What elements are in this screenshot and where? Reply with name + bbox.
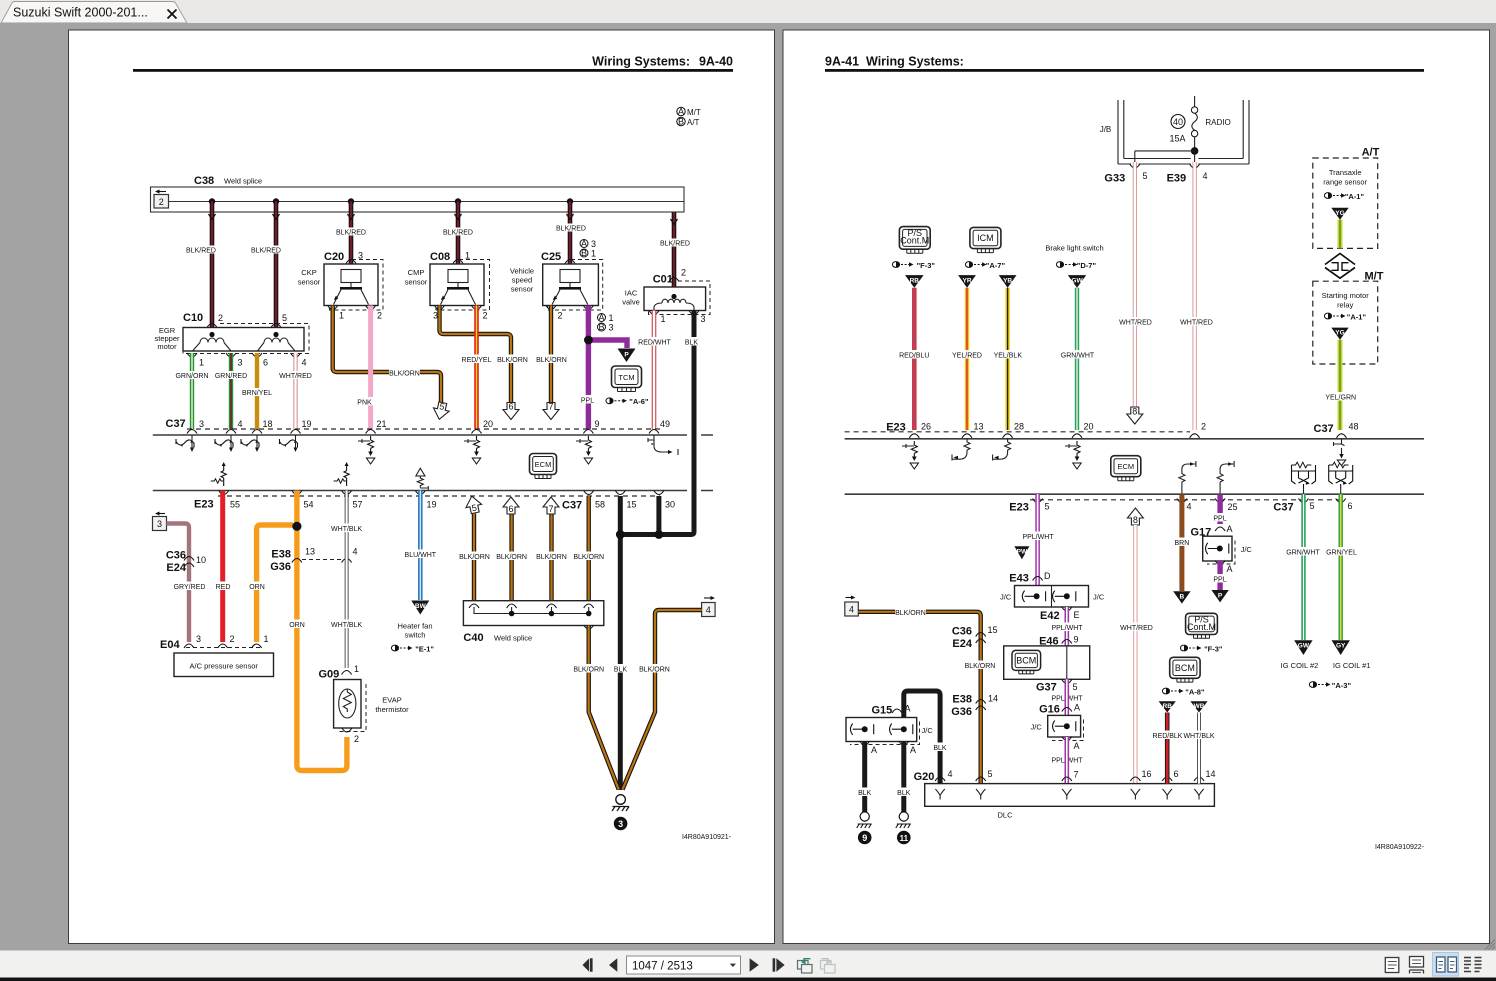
svg-text:BLK: BLK [858, 790, 872, 797]
svg-text:BLK/ORN: BLK/ORN [965, 663, 996, 670]
connector C37 label on lower bus [562, 491, 675, 512]
svg-text:RADIO: RADIO [1205, 118, 1230, 127]
svg-text:RED/BLK: RED/BLK [1153, 733, 1183, 740]
continuation triangle RB from P/S [905, 275, 924, 288]
svg-text:A: A [1227, 564, 1233, 574]
wire WHT/RED G33 to arrow 8 [1119, 162, 1152, 407]
svg-text:A: A [1074, 741, 1080, 751]
wire BLU/WHT E23 pin19 to heater fan switch [403, 491, 437, 601]
see reference F-3 (upper) [892, 261, 935, 270]
svg-text:1: 1 [661, 314, 666, 324]
svg-text:BLK/RED: BLK/RED [251, 248, 281, 255]
right page header title [825, 55, 964, 69]
svg-text:20: 20 [483, 419, 493, 429]
svg-text:A: A [598, 312, 604, 322]
connector C37 bus (upper) [153, 418, 713, 435]
thermistor G09 EVAP [319, 664, 410, 744]
svg-text:YG: YG [1335, 210, 1344, 217]
ECM internal resistor above C37 pin48 [1334, 439, 1346, 466]
svg-text:13: 13 [974, 422, 984, 432]
svg-text:4: 4 [706, 605, 711, 615]
weld splice C40 [463, 601, 603, 644]
svg-text:15A: 15A [1169, 134, 1185, 144]
ECM internal circuits above E23 [211, 462, 227, 486]
hollow arrow 8 down [1127, 407, 1143, 425]
svg-text:2: 2 [1201, 422, 1206, 432]
svg-text:sensor: sensor [511, 285, 534, 294]
wire BLK/ORN box4 to ground junction [623, 610, 702, 790]
wire YEL/GRN transaxle sensor [1338, 220, 1343, 249]
svg-text:RED: RED [216, 584, 231, 591]
svg-text:B: B [1180, 594, 1185, 601]
svg-text:GRN/RED: GRN/RED [215, 373, 247, 380]
wire ORN E23 pin54 to G09 pin2 [287, 491, 347, 771]
inline connector E38/G36 pin13 to pin4 link [270, 547, 357, 574]
wire BLK/ORN arrow5 to C40 [459, 514, 490, 602]
svg-text:BCM: BCM [1175, 663, 1195, 673]
wire BRN lower bus to triangle B [1171, 494, 1192, 591]
svg-text:BLK/ORN: BLK/ORN [497, 357, 528, 364]
wire GRN/RED C10 pin3 to C37 pin4 [215, 353, 248, 429]
svg-text:Transaxle: Transaxle [1329, 168, 1362, 177]
svg-text:A/C pressure sensor: A/C pressure sensor [190, 662, 259, 671]
svg-text:BLK: BLK [614, 667, 628, 674]
wire BLK/ORN C08 pin3 to arrow 6 [440, 306, 529, 404]
E23 right pins [909, 422, 1206, 438]
svg-text:BW: BW [415, 603, 427, 610]
svg-text:ORN: ORN [249, 584, 265, 591]
wire RED E23 pin55 to E04 pin2 [213, 491, 233, 643]
svg-text:switch: switch [405, 631, 426, 640]
svg-text:2: 2 [483, 311, 488, 321]
svg-text:PNK: PNK [357, 400, 372, 407]
svg-text:E: E [1074, 610, 1080, 620]
svg-text:GRY/RED: GRY/RED [174, 584, 206, 591]
wire PPL lower bus to G17 [1210, 494, 1230, 524]
wire RED/BLK to G20 pin6 [1152, 713, 1183, 784]
svg-text:J/C: J/C [922, 726, 934, 735]
toolbar: continuous view icon [1410, 957, 1424, 974]
C25 variant pins legend A3 B1 [580, 238, 596, 258]
ground symbol 11 [896, 812, 911, 844]
svg-text:RED/YEL: RED/YEL [462, 357, 492, 364]
svg-text:BLK/ORN: BLK/ORN [573, 667, 604, 674]
connector E04 A/C pressure sensor [160, 634, 274, 677]
browser tab bar background [0, 0, 1496, 23]
svg-text:10: 10 [196, 555, 206, 565]
svg-text:GW: GW [1298, 643, 1310, 650]
svg-text:13: 13 [305, 547, 315, 557]
BCM box with module icon [1004, 646, 1090, 679]
svg-text:2: 2 [159, 197, 164, 207]
svg-text:E39: E39 [1167, 173, 1187, 185]
svg-text:C20: C20 [324, 251, 344, 263]
connector C10 EGR stepper motor [154, 312, 309, 354]
svg-text:BLK/ORN: BLK/ORN [536, 554, 567, 561]
svg-text:sensor: sensor [298, 278, 321, 287]
junction block J/B walls [1100, 100, 1249, 164]
ECM internal circuit above lower bus at BRN [1179, 461, 1196, 494]
svg-text:D: D [1044, 571, 1051, 581]
svg-text:48: 48 [1349, 422, 1359, 432]
module TCM [612, 366, 642, 392]
svg-text:"A-7": "A-7" [986, 261, 1006, 270]
toolbar: first page button [583, 958, 593, 971]
svg-text:49: 49 [660, 419, 670, 429]
svg-text:Weld splice: Weld splice [224, 177, 262, 186]
svg-text:3: 3 [618, 819, 623, 829]
svg-text:15: 15 [988, 625, 998, 635]
junction connector G16 pinA J/C [1031, 703, 1084, 765]
svg-text:18: 18 [263, 419, 273, 429]
svg-text:speed: speed [512, 276, 532, 285]
svg-text:BLK: BLK [685, 340, 699, 347]
svg-text:motor: motor [157, 342, 177, 351]
see reference D-7 [1056, 261, 1096, 270]
wire WHT/RED arrow8 to G20 pin16 [1120, 525, 1153, 784]
svg-text:IAC: IAC [625, 289, 638, 298]
svg-text:"A-1": "A-1" [1345, 192, 1365, 201]
svg-text:9: 9 [595, 419, 600, 429]
wire BRN/YEL C10 pin6 to C37 pin18 [241, 353, 273, 429]
ground symbol 9 [857, 812, 872, 844]
svg-text:CMP: CMP [408, 268, 425, 277]
svg-text:19: 19 [302, 419, 312, 429]
svg-text:54: 54 [304, 500, 314, 510]
svg-text:Cont.M: Cont.M [1187, 622, 1216, 632]
inline connector E38/G36 pin14 (right page) [951, 694, 998, 719]
svg-text:14: 14 [1206, 769, 1216, 779]
svg-text:WHT/RED: WHT/RED [1119, 320, 1152, 327]
svg-text:CKP: CKP [301, 268, 316, 277]
svg-text:RED/WHT: RED/WHT [638, 340, 671, 347]
junction connector G15 pinA J/C [846, 704, 933, 756]
svg-text:5: 5 [1310, 501, 1315, 511]
svg-text:P: P [1218, 592, 1223, 599]
svg-text:8: 8 [1132, 407, 1137, 417]
svg-text:BLK/ORN: BLK/ORN [389, 371, 420, 378]
svg-text:3: 3 [196, 634, 201, 644]
module P/S Cont.M (upper) [899, 227, 930, 254]
wire PPL/WHT E42 to E46 [1051, 607, 1083, 646]
svg-text:19: 19 [427, 500, 437, 510]
svg-text:1047 / 2513: 1047 / 2513 [632, 961, 693, 973]
svg-text:2: 2 [230, 634, 235, 644]
lower bus E23/C37 (right page) [845, 494, 1424, 500]
wire BLK/ORN E23 pin58 to C40 [573, 496, 604, 601]
svg-text:58: 58 [595, 500, 605, 510]
circuit number box 3 with arrow [153, 512, 167, 531]
right page sheet [783, 30, 1490, 944]
wire BLK/ORN C25 pin2 to arrow 7 [536, 306, 567, 404]
C38 weld splice bus [151, 187, 685, 212]
svg-text:B: B [678, 117, 684, 127]
see reference A-3 [1309, 681, 1351, 690]
svg-text:3: 3 [701, 314, 706, 324]
svg-text:25: 25 [1228, 502, 1238, 512]
wire YEL/GRN starting motor relay to C37 pin48 [1325, 340, 1356, 430]
svg-text:ECM: ECM [1117, 462, 1134, 471]
wire BLK/RED C38 to C01 pin2 [671, 212, 678, 296]
svg-text:C37: C37 [562, 500, 582, 512]
svg-text:J/C: J/C [1000, 593, 1012, 602]
svg-text:Starting motor: Starting motor [1322, 291, 1370, 300]
C37 pin chevrons and numbers [187, 419, 670, 434]
svg-text:GRN/ORN: GRN/ORN [175, 373, 208, 380]
ground G symbol with body ground 3 [612, 795, 629, 831]
svg-text:3: 3 [238, 358, 243, 368]
svg-text:E23: E23 [1009, 502, 1029, 514]
bottom toolbar [0, 951, 1496, 978]
svg-text:BLK/RED: BLK/RED [660, 241, 690, 248]
svg-text:PPL: PPL [1213, 577, 1226, 584]
hollow arrow 7 up (from sheet) [543, 497, 559, 514]
left page sheet [69, 30, 775, 944]
wire PPL/WHT G37 to G16 [1065, 679, 1070, 715]
svg-text:8: 8 [1133, 515, 1138, 525]
toolbar: last page button [773, 958, 785, 971]
svg-text:11: 11 [900, 834, 909, 843]
module ECM (left page) [530, 454, 557, 479]
svg-text:6: 6 [508, 402, 513, 412]
svg-text:ICM: ICM [977, 233, 994, 243]
wire ORN E04 pin1 to ORN junction [247, 525, 293, 642]
brake light switch label [1045, 244, 1103, 253]
svg-text:6: 6 [1348, 501, 1353, 511]
svg-text:B: B [598, 322, 604, 332]
wire BLK C01 pin3 down and left to junction [620, 311, 700, 535]
wire GRN/YEL C37 pin6 to IG coil 1 [1325, 494, 1358, 640]
svg-text:G36: G36 [270, 561, 291, 573]
svg-text:Wiring Systems:: Wiring Systems: [592, 55, 690, 69]
svg-text:3: 3 [199, 419, 204, 429]
svg-text:3: 3 [591, 239, 596, 249]
svg-text:YEL/GRN: YEL/GRN [1325, 395, 1356, 402]
wire BLK/RED C38 to C10 pin2 [209, 202, 216, 328]
BLK wire label [612, 664, 629, 674]
svg-text:C40: C40 [463, 632, 483, 644]
continuation triangle GW brake light switch [1068, 275, 1086, 288]
connector C25 vehicle speed sensor [510, 251, 603, 310]
svg-text:G20: G20 [914, 771, 935, 783]
svg-text:2: 2 [354, 734, 359, 744]
M/T A/T selector double arrow [1325, 254, 1355, 279]
svg-text:16: 16 [1142, 769, 1152, 779]
svg-text:4: 4 [948, 769, 953, 779]
svg-text:GRN/YEL: GRN/YEL [1326, 550, 1357, 557]
svg-text:C37: C37 [166, 418, 186, 430]
wire WHT/RED E39 to E23 pin2 [1180, 162, 1213, 430]
svg-text:Wiring Systems:: Wiring Systems: [866, 55, 964, 69]
svg-text:TCM: TCM [618, 373, 634, 382]
svg-text:9A-40: 9A-40 [699, 55, 733, 69]
wire GRN/WHT C37 pin5 to IG coil 2 [1286, 494, 1320, 640]
svg-text:5: 5 [988, 769, 993, 779]
continuation triangle YB from ICM [999, 275, 1017, 288]
svg-text:Suzuki Swift 2000-201...: Suzuki Swift 2000-201... [13, 6, 148, 20]
svg-text:ECM: ECM [535, 460, 552, 469]
svg-text:PPL: PPL [1213, 516, 1226, 523]
svg-text:1: 1 [339, 311, 344, 321]
svg-text:5: 5 [1143, 171, 1148, 181]
C08 lower pins 3 2 [433, 306, 488, 321]
svg-text:21: 21 [377, 419, 387, 429]
wire PPL C25 to C37 pin9 with branch to TCM [578, 306, 627, 430]
continuation triangle GW to IG coil 2 [1281, 640, 1319, 670]
svg-text:J/B: J/B [1100, 125, 1112, 134]
svg-text:2: 2 [377, 311, 382, 321]
legend A=M/T B=A/T [677, 107, 701, 128]
svg-text:PW: PW [1017, 549, 1028, 556]
see reference A-7 [965, 261, 1005, 270]
svg-text:55: 55 [230, 500, 240, 510]
wire BLK/ORN box4 to G20 pin5 [858, 608, 995, 784]
svg-text:WHT/BLK: WHT/BLK [331, 622, 362, 629]
svg-text:Heater fan: Heater fan [397, 622, 432, 631]
wire BLK/RED C38 to C10 pin5 [273, 202, 280, 328]
svg-text:1: 1 [591, 249, 596, 259]
wire YEL/BLK to E23 pin28 [992, 288, 1024, 430]
module P/S Cont.M (lower) [1186, 613, 1218, 638]
C01 lower pins 1 3 [649, 311, 706, 325]
svg-text:20: 20 [1084, 422, 1094, 432]
svg-text:M/T: M/T [687, 108, 701, 117]
svg-text:"A-8": "A-8" [1185, 688, 1205, 697]
connector E46 pin9 into BCM [1039, 635, 1078, 648]
svg-text:YEL/BLK: YEL/BLK [994, 353, 1023, 360]
connector C01 IAC valve [622, 268, 710, 315]
wire WHT/RED C10 pin4 to C37 pin19 [279, 353, 312, 429]
svg-text:RB: RB [910, 278, 920, 285]
wire GRN/WHT to E23 pin20 [1060, 288, 1095, 430]
wire BLK/ORN C40 to ground junction [573, 625, 619, 790]
wire BLK/ORN arrow6 to C40 [496, 515, 527, 602]
continuation triangle YR from ICM [958, 275, 976, 288]
svg-text:7: 7 [548, 402, 553, 412]
svg-text:A: A [678, 107, 684, 117]
junction dots on BLK wires [616, 530, 663, 539]
svg-text:6: 6 [1174, 769, 1179, 779]
svg-text:"E-1": "E-1" [415, 645, 434, 654]
toolbar: facing pages view icon (selected) [1433, 953, 1459, 977]
wire BLK/RED C38 to C08 pin1 [455, 202, 462, 265]
M/T starting motor relay box [1313, 271, 1384, 365]
svg-text:2: 2 [218, 313, 223, 323]
ECM internal circuits below right E23 [902, 441, 919, 469]
svg-text:5: 5 [282, 313, 287, 323]
svg-text:C08: C08 [430, 251, 450, 263]
left page header title [592, 55, 733, 69]
svg-text:G33: G33 [1104, 173, 1125, 185]
wire RED/BLU to E23 pin26 [898, 288, 930, 430]
circuit number box 4 with arrow (right page) [845, 596, 859, 617]
svg-text:WHT/BLK: WHT/BLK [331, 526, 362, 533]
svg-text:E38: E38 [271, 549, 291, 561]
EGR coil 1 [193, 332, 232, 351]
wire PPL/WHT E23 pin5 to E43 [1022, 494, 1054, 585]
toolbar: book view icon [1464, 958, 1482, 972]
DLC internal pin forks [935, 789, 1203, 800]
svg-text:6: 6 [263, 358, 268, 368]
wire PPL/WHT G16 to G20 pin7 [1065, 737, 1070, 784]
svg-text:14: 14 [988, 694, 998, 704]
svg-text:C10: C10 [183, 312, 203, 324]
svg-text:BLK/RED: BLK/RED [443, 230, 473, 237]
junction node dots on C38 bus [209, 198, 573, 204]
svg-text:4: 4 [353, 547, 358, 557]
C20 lower pins 1 2 [328, 306, 382, 321]
svg-text:BRN: BRN [1175, 540, 1190, 547]
hollow arrow 6 (to sheet) [503, 402, 519, 420]
svg-text:C25: C25 [541, 251, 561, 263]
svg-text:sensor: sensor [405, 278, 428, 287]
connector C37 pins 5 6 (lower bus) [1273, 499, 1352, 514]
connector G37 pin5 [1036, 680, 1083, 703]
toolbar: navigate back icon [798, 959, 813, 973]
VSS sensor element [552, 270, 588, 305]
circuit number box 4 with arrow [702, 596, 716, 617]
svg-text:range sensor: range sensor [1323, 178, 1367, 187]
module ECM (right page) [1111, 456, 1141, 481]
C25 lower pins 2 and A1/B3 [546, 306, 614, 333]
wire BLK/ORN arrow7 to C40 [536, 515, 567, 602]
svg-text:3: 3 [157, 519, 162, 529]
toolbar: navigate forward icon (disabled) [821, 959, 836, 973]
wire YEL/RED to E23 pin13 [951, 288, 983, 430]
svg-text:15: 15 [627, 500, 637, 510]
continuation triangle PW [1014, 546, 1029, 559]
C10 lower pins 1 3 6 4 [187, 353, 307, 368]
A/T transaxle range sensor box [1313, 147, 1380, 249]
svg-text:DLC: DLC [997, 811, 1013, 820]
svg-text:RED/BLU: RED/BLU [899, 353, 929, 360]
svg-text:C38: C38 [194, 175, 214, 187]
inline connector C36/E24 pin10 [166, 550, 206, 575]
svg-text:7: 7 [548, 504, 553, 514]
svg-text:E24: E24 [952, 638, 972, 650]
svg-text:"F-3": "F-3" [917, 261, 936, 270]
svg-text:Weld splice: Weld splice [494, 634, 532, 643]
svg-text:BLK/RED: BLK/RED [186, 248, 216, 255]
svg-text:3: 3 [609, 323, 614, 333]
toolbar: next page button [750, 958, 759, 971]
svg-text:B: B [581, 248, 587, 258]
connector C20 CKP sensor [298, 251, 383, 311]
svg-text:BRN/YEL: BRN/YEL [242, 390, 272, 397]
ECM internal transistor circuits for IG coils [1292, 462, 1316, 494]
svg-text:BCM: BCM [1016, 655, 1036, 665]
svg-text:C37: C37 [1314, 423, 1334, 435]
svg-text:A/T: A/T [1362, 147, 1380, 159]
BLK/RED wire labels [186, 224, 690, 255]
IAC valve coil [654, 294, 694, 311]
CKP sensor element [334, 270, 369, 305]
svg-text:YR: YR [962, 278, 971, 285]
wire BLK G15 right to ground 11 [895, 742, 912, 813]
svg-text:9: 9 [1074, 635, 1079, 645]
wire BLK G15 up over to G20 pin4 [904, 691, 949, 784]
svg-text:4: 4 [849, 605, 854, 615]
E23 pin chevrons and numbers [219, 491, 605, 510]
active tab [1, 2, 187, 24]
fuse 40 15A RADIO [1169, 96, 1230, 150]
svg-text:valve: valve [622, 298, 640, 307]
svg-text:PPL/WHT: PPL/WHT [1022, 534, 1054, 541]
svg-text:57: 57 [353, 500, 363, 510]
module BCM (lower right) [1170, 657, 1200, 682]
wire GRN/ORN C10 pin1 to C37 pin3 [175, 353, 209, 429]
svg-text:4: 4 [238, 419, 243, 429]
